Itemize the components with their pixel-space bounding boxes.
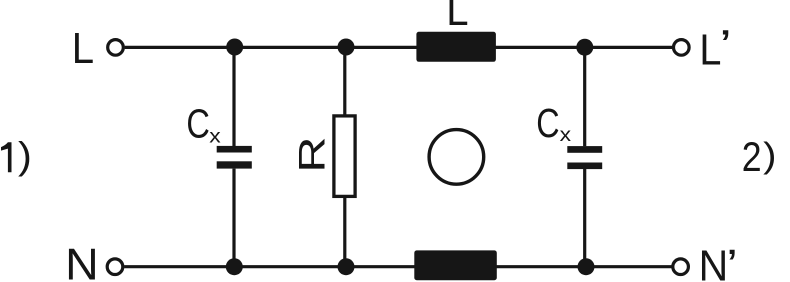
wire left Cx branch lower xyxy=(232,169,235,267)
wire R branch lower xyxy=(343,198,346,267)
terminal label N' xyxy=(699,241,738,282)
wire bottom rail N to N' xyxy=(124,265,671,268)
capacitor Cx left top plate xyxy=(217,146,252,153)
capacitor Cx left bottom plate xyxy=(217,161,252,168)
wire left Cx branch upper xyxy=(232,47,235,146)
terminal N xyxy=(107,259,123,275)
capacitor Cx right top plate xyxy=(567,146,602,153)
svg-text:R: R xyxy=(292,136,333,172)
node junction bottom-left (Cx branch) xyxy=(226,258,243,275)
wire right Cx branch lower xyxy=(583,169,586,267)
label 2) xyxy=(742,134,777,180)
svg-text:x: x xyxy=(560,125,572,146)
choke core circle xyxy=(429,130,484,185)
svg-text:): ) xyxy=(763,135,776,174)
terminal L' xyxy=(674,40,690,56)
svg-text:2: 2 xyxy=(742,134,762,180)
svg-text:’: ’ xyxy=(719,21,732,70)
inductor L bottom winding xyxy=(414,250,497,280)
svg-text:x: x xyxy=(209,126,221,147)
capacitor Cx right bottom plate xyxy=(567,163,602,170)
svg-text:N: N xyxy=(699,242,729,282)
resistor R body xyxy=(334,116,355,196)
svg-text:C: C xyxy=(536,101,559,146)
label C_x right xyxy=(536,101,571,146)
inductor L top winding xyxy=(416,32,496,62)
node junction bottom-right (Cx branch) xyxy=(578,258,595,275)
wire top rail L to L' xyxy=(125,46,673,49)
svg-text:L: L xyxy=(699,24,721,73)
svg-text:L: L xyxy=(446,0,468,34)
wire right Cx branch upper xyxy=(583,47,586,146)
svg-text:L: L xyxy=(72,24,94,73)
svg-text:N: N xyxy=(65,240,99,282)
node junction bottom-middle (R branch) xyxy=(338,258,355,275)
node junction top-middle (R branch) xyxy=(338,39,355,56)
label 1) xyxy=(1,135,32,177)
terminal L xyxy=(108,40,124,56)
wire R branch upper xyxy=(343,47,346,115)
svg-text:C: C xyxy=(186,100,210,147)
svg-text:’: ’ xyxy=(726,241,738,282)
terminal N' xyxy=(673,259,689,275)
node junction top-right (Cx branch) xyxy=(576,39,593,56)
label C_x left xyxy=(186,100,221,147)
terminal label L' xyxy=(699,21,731,74)
node junction top-left (Cx branch) xyxy=(226,39,243,56)
svg-text:): ) xyxy=(18,135,32,177)
